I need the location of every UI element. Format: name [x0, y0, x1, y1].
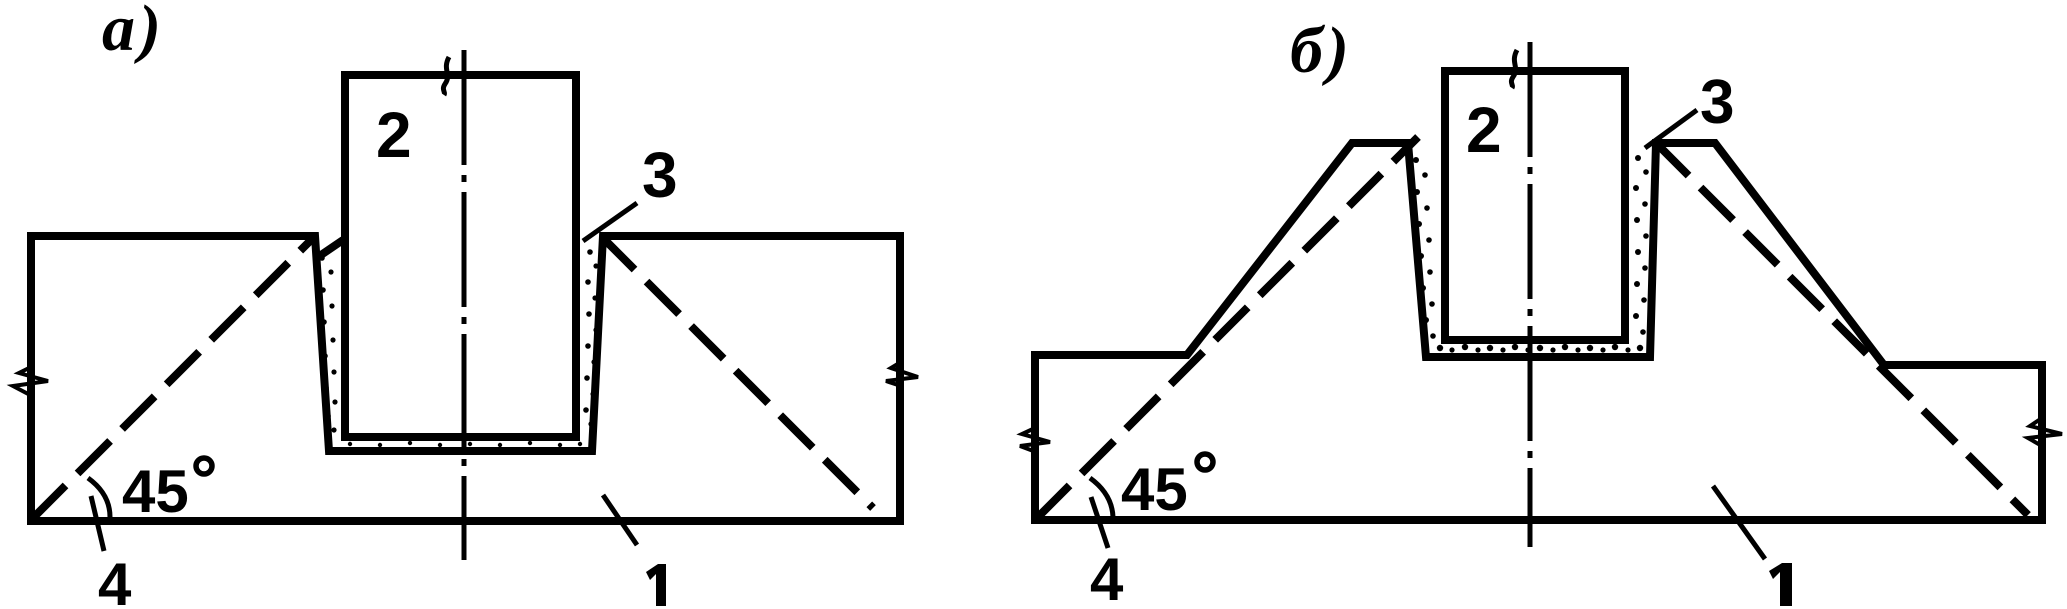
break zigzag on left edge (left fig)	[13, 367, 48, 396]
grout 3 dots right wall (right fig)	[1633, 155, 1649, 335]
break mark on column top (left)	[443, 57, 449, 95]
break mark on column top (right)	[1511, 50, 1517, 88]
break zigzag on right edge (left fig)	[886, 362, 918, 386]
45 degree arc (left fig)	[88, 478, 110, 517]
dashed 45deg line to lower-right (right fig)	[1656, 143, 2028, 515]
centerline (right)	[1528, 42, 1533, 547]
svg-text:2: 2	[1466, 94, 1502, 166]
svg-text:45: 45	[1121, 456, 1188, 523]
dashed 45deg line lower-left (left fig)	[33, 235, 316, 518]
foundation 1 outline (left)	[31, 236, 900, 521]
dashed 45deg line lower-left (right fig)	[1037, 137, 1418, 518]
svg-text:4: 4	[98, 551, 132, 609]
svg-text:а): а)	[102, 0, 165, 65]
svg-text:б): б)	[1290, 14, 1353, 87]
grout 3 dots right wall (left fig)	[583, 249, 598, 426]
grout 3 dots left wall (left fig)	[319, 255, 337, 432]
svg-text:45: 45	[122, 458, 189, 525]
leader line for 4 (right fig)	[1091, 497, 1108, 548]
column 2 outline (left)	[345, 75, 576, 437]
leader line for 1 (right fig)	[1713, 486, 1765, 559]
leader line for 3 (left fig)	[583, 203, 637, 241]
leader line for 4 (left fig)	[91, 496, 104, 551]
label 1 (right fig)	[1769, 563, 1792, 606]
grout 3 dots bottom strip (left fig)	[348, 441, 582, 447]
svg-text:3: 3	[642, 139, 678, 211]
label 1 (left fig)	[646, 564, 666, 606]
dashed 45deg line to lower-right (left fig)	[602, 237, 873, 508]
45 degree arc (right fig)	[1090, 478, 1113, 517]
svg-text:3: 3	[1700, 68, 1734, 137]
leader line for 1 (left fig)	[603, 495, 637, 545]
break zigzag on left edge (right fig)	[1020, 428, 1050, 452]
final dash crossing pocket corner (left fig)	[318, 240, 343, 257]
grout 3 dots left wall (right fig)	[1413, 157, 1436, 339]
svg-text:2: 2	[376, 99, 412, 171]
grout 3 dots bottom strip (right fig)	[1437, 344, 1643, 353]
leader line for 3 (right fig)	[1645, 110, 1697, 148]
centerline (left)	[462, 50, 467, 560]
break zigzag on right edge (right fig)	[2028, 418, 2062, 446]
foundation 1 outline (right)	[1035, 143, 2042, 520]
svg-text:4: 4	[1090, 546, 1124, 609]
column 2 outline (right)	[1445, 71, 1625, 340]
